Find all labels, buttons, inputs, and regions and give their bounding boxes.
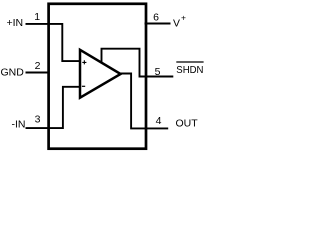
svg-text:2: 2 xyxy=(35,60,41,72)
svg-text:5: 5 xyxy=(155,66,161,78)
svg-text:+IN: +IN xyxy=(7,17,24,29)
plus symbol (non-inverting input) xyxy=(82,60,86,64)
svg-text:3: 3 xyxy=(35,114,41,126)
svg-text:4: 4 xyxy=(156,115,162,127)
overline for SHDN xyxy=(176,61,203,63)
wire pin5 SHDN to comparator top xyxy=(102,49,174,77)
svg-text:6: 6 xyxy=(153,11,159,23)
svg-text:+: + xyxy=(181,13,186,23)
svg-text:1: 1 xyxy=(34,11,40,23)
minus symbol (inverting input) xyxy=(82,85,85,87)
wire output to pin4 OUT xyxy=(120,74,169,129)
wire pin6 V+ stub xyxy=(145,23,171,25)
svg-text:V: V xyxy=(173,18,180,30)
wire pin1 +IN to non-inverting input xyxy=(26,24,80,61)
svg-text:GND: GND xyxy=(1,67,25,79)
svg-text:OUT: OUT xyxy=(176,118,199,130)
svg-text:SHDN: SHDN xyxy=(176,65,203,76)
IC body U1 (6-pin package outline) xyxy=(49,4,146,149)
svg-text:-IN: -IN xyxy=(12,119,26,131)
op-amp A1 (comparator triangle) xyxy=(80,50,121,98)
wire pin2 GND stub xyxy=(26,72,49,74)
wire pin3 -IN to inverting input xyxy=(26,87,80,128)
